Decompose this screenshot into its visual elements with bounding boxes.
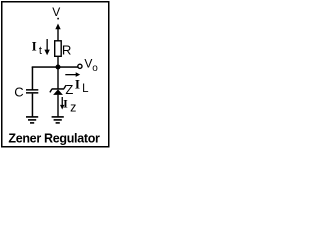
capacitor C bottom plate (26, 92, 38, 94)
svg-text:R: R (62, 43, 72, 58)
svg-text:z: z (70, 101, 76, 115)
svg-text:Zener Regulator: Zener Regulator (8, 131, 100, 145)
svg-text:o: o (92, 63, 98, 74)
junction dot (56, 65, 61, 70)
svg-text:I: I (32, 39, 37, 54)
zener left wing (50, 89, 52, 92)
horizontal node wire (32, 66, 78, 68)
svg-text:V: V (52, 5, 60, 19)
wire node to zener (57, 67, 58, 89)
zener right wing (64, 85, 66, 88)
ground under zener (52, 116, 64, 118)
svg-text:V: V (84, 57, 92, 71)
svg-text:L: L (82, 83, 89, 95)
svg-text:t: t (39, 45, 42, 57)
capacitor C top plate (26, 89, 38, 91)
svg-text:C: C (14, 84, 23, 99)
border frame (2, 2, 109, 147)
I_t down arrow (47, 39, 48, 51)
wire capacitor to ground (32, 94, 34, 117)
wire resistor to node (57, 56, 58, 67)
wire from arrow to resistor R (57, 27, 58, 41)
load current arrow I_L (65, 74, 77, 75)
zener current arrow I_z (62, 97, 63, 106)
wire stub dot above arrow (57, 18, 59, 20)
svg-text:Z: Z (65, 82, 73, 97)
background (0, 0, 112, 150)
zener cathode bar (52, 88, 64, 90)
output terminal circle (78, 64, 82, 68)
wire zener to ground (57, 95, 58, 117)
zener diode triangle Z (53, 89, 63, 95)
svg-text:I: I (63, 96, 68, 110)
up arrow into node V (55, 24, 60, 30)
resistor R (box) (55, 41, 62, 57)
svg-text:I: I (75, 76, 80, 91)
capacitor branch wire down (32, 67, 34, 90)
ground under capacitor (26, 116, 38, 118)
